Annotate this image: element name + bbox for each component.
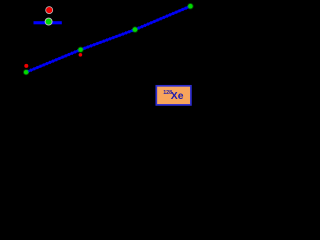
node halo: green glow 3 bbox=[132, 26, 138, 32]
legend inset: green marker bbox=[45, 18, 52, 25]
node halo: green glow 1 bbox=[23, 69, 29, 75]
node: green data point 4 (line end) bbox=[188, 4, 193, 9]
legend inset: red marker bbox=[46, 7, 53, 14]
node: green data point 1 (line start) bbox=[24, 70, 28, 74]
svg-text:Xe: Xe bbox=[171, 91, 184, 102]
legend inset: blue bar bbox=[34, 21, 62, 24]
node: red data point 1 bbox=[24, 64, 28, 68]
wire: main blue data line bbox=[28, 6, 191, 71]
label box 128Xe bbox=[156, 86, 191, 105]
node halo: green glow 2 bbox=[78, 47, 84, 53]
node: red data point 2 bbox=[79, 53, 83, 57]
node: green data point 3 bbox=[133, 27, 138, 32]
node halo: green glow 4 bbox=[187, 3, 193, 9]
node: green data point 2 bbox=[78, 48, 82, 52]
